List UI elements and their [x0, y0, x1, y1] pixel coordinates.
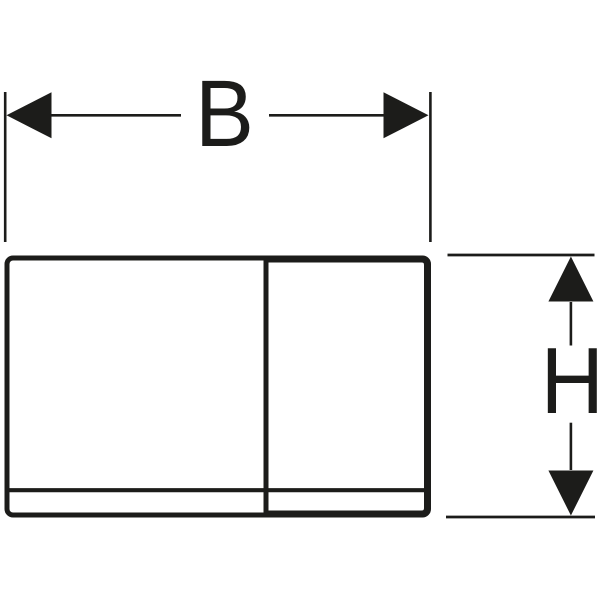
- dimension H: line bottom segment: [570, 423, 573, 470]
- dimension B: left extension line: [4, 92, 7, 242]
- svg-text:B: B: [195, 61, 254, 167]
- dimension H: down arrow: [548, 471, 593, 516]
- dimension H: bottom extension line: [446, 516, 595, 519]
- dimension B: right arrow: [384, 92, 429, 138]
- dimension H: top extension line: [448, 254, 595, 257]
- dimension H: line top segment: [570, 302, 573, 346]
- dimension B: left arrow: [7, 92, 52, 138]
- dimension B: line right segment: [269, 114, 385, 117]
- dimension B: right extension line: [429, 92, 432, 242]
- dimension H: up arrow: [548, 257, 593, 302]
- plate outline: [7, 258, 429, 515]
- right panel: [266, 260, 427, 513]
- svg-text:H: H: [541, 329, 600, 433]
- dimension B: line left segment: [50, 114, 181, 117]
- label B: [195, 61, 254, 167]
- label H: [541, 329, 600, 433]
- bottom strip line: [7, 488, 429, 492]
